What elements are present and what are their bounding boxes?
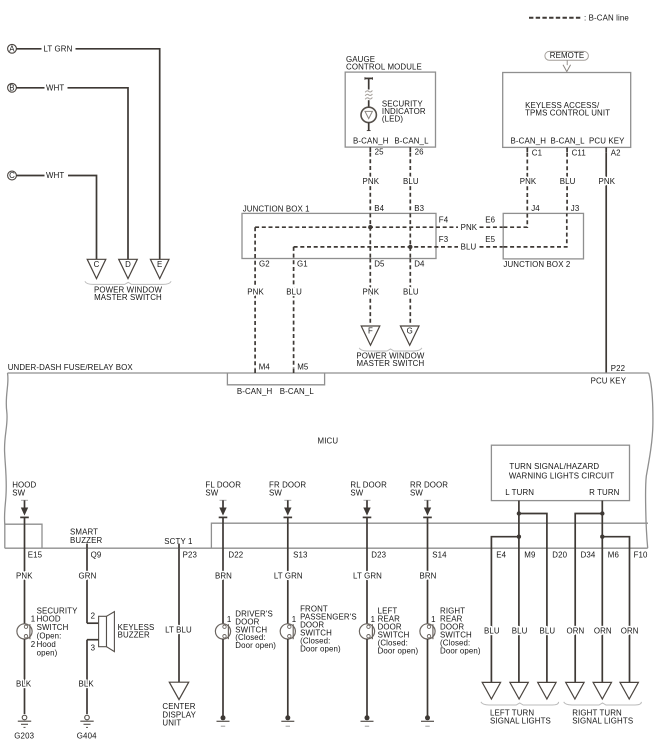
svg-text:C: C [9, 171, 15, 180]
wire GRN Q9 to buzzer [79, 548, 97, 623]
connector triangle D34 lamp [566, 682, 584, 699]
caption LEFT TURN SIGNAL LIGHTS [490, 708, 551, 725]
wire A LT GRN to triangle E [16, 44, 159, 259]
brace under triangles C D E [85, 281, 171, 284]
svg-text:BLK: BLK [16, 679, 32, 688]
svg-text:E6: E6 [485, 215, 495, 224]
resistor coil (security indicator series) [365, 77, 373, 107]
branch wire to E4 [491, 537, 519, 683]
svg-text:S14: S14 [432, 550, 447, 559]
wire BLK buzzer to ground [79, 640, 95, 714]
junction box 2 label [503, 260, 570, 269]
wire left rear door switch to body ground [366, 639, 368, 716]
svg-text:LT BLU: LT BLU [165, 626, 192, 635]
svg-text:1: 1 [431, 615, 436, 624]
pin D5 [374, 260, 385, 269]
connector triangle C [87, 259, 106, 278]
svg-text:BLU: BLU [403, 177, 419, 186]
wire PNK A2 PCU KEY down to fuse box pin P22 [599, 152, 616, 373]
connector triangle D [119, 259, 138, 278]
caption RIGHT TURN SIGNAL LIGHTS [572, 708, 633, 725]
caption CENTER DISPLAY UNIT [162, 702, 196, 728]
body ground (left rear door switch) [361, 715, 374, 726]
svg-text:B-CAN_L: B-CAN_L [394, 136, 429, 145]
pin G1 [297, 260, 308, 269]
legend dashed B-CAN line sample [529, 17, 583, 19]
wire LT GRN RL door sw through pin D23 to left rear door switch [353, 517, 387, 623]
wire LT BLU P23 to center display unit [165, 548, 192, 682]
terminal names B-CAN_H B-CAN_L inside fuse box [237, 387, 315, 396]
svg-text:B-CAN_H: B-CAN_H [237, 387, 273, 396]
svg-text:Door open): Door open) [378, 647, 419, 656]
turn signal box title [509, 462, 614, 480]
svg-text:1: 1 [31, 615, 36, 624]
security hood switch S1 [17, 624, 32, 639]
wire LT GRN FR door sw through pin S13 to front passenger's door switch [274, 517, 308, 623]
connector triangle G [400, 326, 419, 345]
door switch pin strip edge [211, 523, 648, 548]
svg-text:open): open) [37, 648, 58, 657]
svg-text:PNK: PNK [599, 177, 616, 186]
svg-text:BLU: BLU [560, 177, 576, 186]
ground G404 [77, 715, 97, 740]
pin Q9 tick [87, 544, 102, 560]
svg-text:1: 1 [227, 615, 232, 624]
svg-text:B-CAN_L: B-CAN_L [280, 387, 315, 396]
pin E15 [28, 550, 43, 559]
wire BRN FL door sw through pin D22 to driver's door switch [215, 517, 243, 623]
right rear door switch [420, 615, 436, 639]
connector triangle F [361, 326, 380, 345]
svg-text:PNK: PNK [247, 288, 264, 297]
svg-text:B3: B3 [414, 204, 424, 213]
junction dot on PNK bus at B4 [368, 225, 372, 229]
wire PNK C1 to junction box 2 pin J4 [520, 153, 541, 214]
svg-text:BLK: BLK [79, 679, 95, 688]
svg-text:MASTER SWITCH: MASTER SWITCH [357, 359, 425, 368]
svg-text:2: 2 [31, 640, 36, 649]
svg-text:25: 25 [375, 148, 385, 157]
front passenger's door switch text [300, 605, 357, 654]
B-CAN notch on fuse box top [227, 373, 324, 385]
svg-text:B: B [9, 83, 14, 92]
svg-text:WHT: WHT [46, 83, 64, 92]
svg-text:LT GRN: LT GRN [353, 572, 382, 581]
svg-text:L TURN: L TURN [505, 488, 534, 497]
L TURN terminal name [505, 488, 534, 497]
body ground (right rear door switch) [421, 715, 434, 726]
svg-text:PNK: PNK [520, 177, 537, 186]
MICU label [318, 437, 339, 446]
svg-text:F3: F3 [439, 235, 449, 244]
svg-text:SW: SW [205, 489, 218, 498]
security hood switch text with pins 1 and 2 [31, 606, 78, 657]
wire color BLU (E4) [484, 627, 500, 636]
svg-text:S13: S13 [293, 550, 308, 559]
FR DOOR SW label [269, 481, 306, 498]
svg-text:PNK: PNK [461, 223, 478, 232]
svg-text:(LED): (LED) [382, 115, 403, 124]
B-CAN L bus BLU dashed (JB1 to JB2) [294, 243, 504, 252]
keyless unit title [525, 101, 610, 117]
svg-text:PNK: PNK [363, 177, 380, 186]
wire BLU G1 down to fuse box pin M5 [286, 247, 302, 368]
svg-text:D20: D20 [552, 550, 567, 559]
svg-text:LT GRN: LT GRN [274, 572, 303, 581]
wire color PNK (hood) [16, 572, 33, 581]
svg-text:GRN: GRN [79, 572, 97, 581]
wire PNK G2 down to fuse box pin M4 [247, 227, 264, 368]
wire BLU C11 to junction box 2 pin J3 [560, 153, 580, 214]
security indicator LED lamp [361, 107, 376, 130]
body ground (driver's door switch) [217, 715, 230, 726]
REMOTE stadium bubble [545, 51, 589, 60]
svg-text:JUNCTION BOX 1: JUNCTION BOX 1 [243, 204, 310, 213]
pin C1 [527, 147, 542, 157]
svg-text:2: 2 [91, 612, 96, 621]
svg-text:D22: D22 [228, 550, 243, 559]
junction dot R TURN / D34 [600, 511, 604, 515]
connector triangle E4 lamp [482, 682, 500, 699]
pin F10 [634, 550, 648, 559]
svg-text:C11: C11 [572, 148, 586, 157]
svg-text:ORN: ORN [594, 627, 612, 636]
svg-text:JUNCTION BOX 2: JUNCTION BOX 2 [503, 260, 570, 269]
RL door switch input arrow [363, 500, 372, 517]
svg-text:PNK: PNK [16, 572, 33, 581]
svg-text:UNDER-DASH FUSE/RELAY BOX: UNDER-DASH FUSE/RELAY BOX [8, 363, 134, 372]
svg-text:BLU: BLU [461, 243, 477, 252]
svg-text:E15: E15 [28, 550, 43, 559]
wire R TURN main down through M6 [601, 501, 603, 683]
svg-text:MICU: MICU [318, 437, 339, 446]
FR door switch input arrow [284, 500, 293, 517]
wire color BLU (M9) [512, 627, 528, 636]
arrow from REMOTE to keyless unit [563, 60, 571, 71]
driver's door switch text [235, 610, 276, 650]
svg-text:D: D [125, 260, 131, 269]
SMART BUZZER terminal label [70, 528, 102, 546]
svg-text:SIGNAL LIGHTS: SIGNAL LIGHTS [572, 717, 633, 726]
caption POWER WINDOW MASTER SWITCH (left) [94, 286, 162, 303]
pin G2 [259, 260, 270, 269]
svg-text:M9: M9 [524, 550, 536, 559]
wire BLK hood switch to ground [16, 639, 32, 714]
FL door switch input arrow [219, 500, 228, 517]
svg-text:J4: J4 [531, 204, 540, 213]
wire BRN RR door sw through pin S14 to right rear door switch [419, 517, 447, 623]
svg-text:B4: B4 [374, 204, 384, 213]
svg-text:BRN: BRN [419, 572, 436, 581]
wire front passenger's door switch to body ground [287, 639, 289, 716]
connector triangle F10 lamp [620, 682, 638, 699]
svg-text:3: 3 [91, 643, 96, 652]
svg-text:ORN: ORN [566, 627, 584, 636]
brace under left turn triangles [481, 702, 559, 705]
body ground (front passenger's door switch) [281, 715, 294, 726]
wire B4 through JB1 to D5 [369, 213, 371, 258]
right rear door switch text [440, 606, 481, 655]
turn signal/hazard warning lights circuit box [491, 445, 629, 500]
svg-text:ORN: ORN [621, 627, 639, 636]
B-CAN H bus PNK dashed (JB1 to JB2) [255, 223, 503, 232]
pin 25 [370, 147, 384, 157]
HOOD SW label [12, 481, 36, 498]
svg-text:BUZZER: BUZZER [118, 631, 150, 640]
pin E5 [485, 235, 495, 244]
svg-text:B-CAN_H: B-CAN_H [511, 137, 547, 146]
pin P23 tick [179, 544, 197, 560]
svg-text:R TURN: R TURN [589, 488, 620, 497]
wire driver's door switch to body ground [222, 639, 224, 716]
svg-text:B-CAN_L: B-CAN_L [551, 137, 586, 146]
wire hood sw to pin E15 [24, 517, 26, 623]
under-dash fuse/relay box outline [4, 373, 652, 548]
pin D20 [552, 550, 567, 559]
svg-text:E5: E5 [485, 235, 495, 244]
pin D34 [581, 550, 596, 559]
JB2 internal PNK link to J4 [503, 213, 527, 227]
svg-text:BLU: BLU [484, 627, 500, 636]
wire color ORN (D34) [566, 627, 584, 636]
svg-text:D23: D23 [371, 550, 386, 559]
pin A2 [606, 147, 620, 157]
svg-text:J3: J3 [571, 204, 580, 213]
svg-text:Door open): Door open) [440, 647, 481, 656]
gauge control module box [345, 72, 435, 147]
ground G203 [14, 715, 34, 740]
JB2 internal BLU link to J3 [503, 213, 566, 247]
wire L TURN main down through M9 [518, 501, 520, 683]
pin D4 [414, 260, 425, 269]
svg-text:UNIT: UNIT [162, 719, 181, 728]
wire BLU D4 to triangle G [403, 259, 419, 326]
svg-text:G: G [407, 327, 413, 336]
junction dot on BLU bus at B3 [408, 245, 412, 249]
svg-text:G404: G404 [77, 732, 97, 741]
svg-text:CONTROL MODULE: CONTROL MODULE [346, 63, 422, 72]
connector triangle M6 lamp [593, 682, 611, 699]
svg-text:26: 26 [415, 148, 425, 157]
wire BLU pin26 to junction box 1 pin B3 [403, 153, 425, 214]
svg-text:SW: SW [350, 489, 363, 498]
pin M9 [524, 550, 536, 559]
svg-text:D4: D4 [414, 260, 425, 269]
svg-text:REMOTE: REMOTE [550, 51, 584, 60]
junction box 1 label [243, 204, 310, 213]
wire color BLU (D20) [540, 627, 556, 636]
brace under triangles F G [359, 348, 422, 351]
svg-text:SW: SW [410, 489, 423, 498]
branch wire to F10 [602, 537, 629, 683]
svg-text:M4: M4 [259, 362, 271, 371]
svg-text:C: C [94, 260, 100, 269]
connector circle B [8, 83, 17, 92]
junction dot L TURN / D20 [517, 511, 521, 515]
svg-text:G1: G1 [297, 260, 308, 269]
pin F4 [439, 215, 449, 224]
label SECURITY INDICATOR (LED) [382, 100, 426, 124]
pin M6 [608, 550, 620, 559]
svg-text:D5: D5 [374, 260, 385, 269]
R TURN terminal name [589, 488, 620, 497]
caption POWER WINDOW MASTER SWITCH (middle) [356, 351, 424, 368]
pin E4 [496, 550, 506, 559]
svg-text:G2: G2 [259, 260, 270, 269]
gauge control module label [346, 55, 422, 72]
terminal name PCU KEY inside fuse box [591, 376, 627, 385]
svg-text:M6: M6 [608, 550, 620, 559]
svg-text:WARNING LIGHTS CIRCUIT: WARNING LIGHTS CIRCUIT [509, 472, 614, 481]
front passenger's door switch [280, 615, 296, 639]
junction dot R TURN / F10 [600, 535, 604, 539]
wire PNK D5 to triangle F [363, 259, 380, 326]
pin P22 label [611, 364, 625, 373]
svg-text:B-CAN_H: B-CAN_H [353, 136, 389, 145]
svg-text:SW: SW [12, 489, 25, 498]
wire B WHT to triangle D [16, 83, 128, 259]
svg-text:Door open): Door open) [300, 645, 341, 654]
svg-text:LT GRN: LT GRN [44, 44, 73, 53]
svg-text:A2: A2 [611, 148, 621, 157]
under-dash fuse/relay box label [8, 363, 134, 372]
hood switch notch on fuse box [5, 524, 42, 548]
svg-text:PCU KEY: PCU KEY [589, 137, 625, 146]
svg-text:BLU: BLU [512, 627, 528, 636]
keyless buzzer [87, 612, 114, 653]
RR door switch input arrow [423, 500, 432, 517]
svg-text:F4: F4 [439, 215, 449, 224]
svg-text:F: F [368, 327, 373, 336]
connector triangle M9 lamp [510, 682, 528, 699]
left rear door switch [359, 615, 375, 639]
svg-text:SIGNAL LIGHTS: SIGNAL LIGHTS [490, 717, 551, 726]
svg-text:C1: C1 [532, 148, 542, 157]
svg-text:1: 1 [292, 615, 297, 624]
connector triangle E [150, 259, 169, 278]
branch wire to D34 [575, 514, 602, 683]
junction box 2 [503, 213, 583, 259]
pin M5 tick and label [294, 362, 309, 373]
svg-text:P22: P22 [611, 364, 625, 373]
FL DOOR SW label [205, 481, 241, 498]
pin 26 [410, 147, 424, 157]
wire C WHT to triangle C [16, 171, 96, 259]
SCTY 1 terminal label [164, 537, 192, 546]
gauge terminal names B-CAN_H B-CAN_L [353, 136, 429, 145]
svg-text:F10: F10 [634, 550, 648, 559]
legend label : B-CAN line [584, 13, 629, 22]
svg-text:M5: M5 [297, 362, 309, 371]
wire PNK pin25 to junction box 1 pin B4 [363, 153, 385, 214]
svg-text:PNK: PNK [363, 288, 380, 297]
branch wire to D20 [519, 514, 547, 683]
keyless access / TPMS control unit box [503, 73, 631, 148]
svg-text:PCU KEY: PCU KEY [591, 376, 627, 385]
connector triangle to center display unit [169, 682, 188, 699]
wire B3 through JB1 to D4 [409, 213, 411, 258]
svg-text:E4: E4 [496, 550, 506, 559]
wire color ORN (M6) [594, 627, 612, 636]
svg-text:TURN SIGNAL/HAZARD: TURN SIGNAL/HAZARD [509, 462, 599, 471]
pin E6 [485, 215, 495, 224]
junction dot L TURN / E4 [517, 535, 521, 539]
svg-text:D34: D34 [581, 550, 596, 559]
svg-text:BLU: BLU [286, 288, 302, 297]
svg-text:SW: SW [269, 489, 282, 498]
pin C11 [567, 147, 586, 157]
connector circle A [8, 44, 17, 53]
svg-text:WHT: WHT [46, 171, 64, 180]
hood switch input arrow [20, 500, 29, 517]
brace under right turn triangles [564, 702, 642, 705]
RR DOOR SW label [410, 481, 448, 498]
svg-text:Door open): Door open) [235, 641, 276, 650]
svg-text:A: A [9, 44, 15, 53]
connector circle C [8, 171, 17, 180]
svg-text:Q9: Q9 [91, 550, 102, 559]
svg-text:G203: G203 [14, 732, 34, 741]
pin F3 [439, 235, 449, 244]
svg-text:BRN: BRN [215, 572, 232, 581]
svg-text:: B-CAN line: : B-CAN line [584, 13, 629, 22]
left rear door switch text [378, 606, 419, 655]
junction box 1 [242, 213, 436, 258]
svg-text:P23: P23 [183, 550, 198, 559]
wire right rear door switch to body ground [427, 639, 429, 716]
keyless buzzer label [118, 623, 155, 640]
driver's door switch [215, 615, 231, 639]
svg-text:MASTER SWITCH: MASTER SWITCH [94, 293, 162, 302]
pin M4 tick and label [255, 362, 270, 373]
RL DOOR SW label [350, 481, 387, 498]
svg-text:1: 1 [371, 615, 376, 624]
connector triangle D20 lamp [538, 682, 556, 699]
keyless terminal names [511, 137, 626, 146]
svg-text:E: E [157, 260, 162, 269]
svg-text:TPMS CONTROL UNIT: TPMS CONTROL UNIT [525, 108, 610, 117]
svg-text:BLU: BLU [540, 627, 556, 636]
svg-text:BLU: BLU [403, 288, 419, 297]
wire color ORN (F10) [621, 627, 639, 636]
